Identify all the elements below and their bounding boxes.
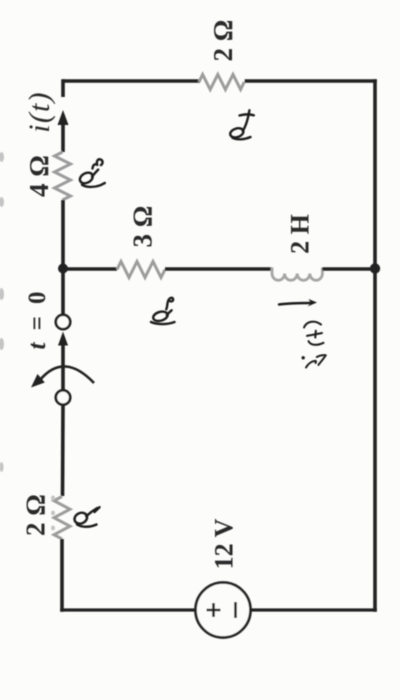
resistor R2 zigzag 3 ohm middle wire [117, 262, 165, 278]
wire bottom left: corner to source [60, 608, 196, 611]
switch blade arrowhead [58, 332, 68, 346]
wire top right segment [245, 79, 377, 83]
handwritten R1 designator [73, 507, 100, 527]
svg-text:2 H: 2 H [286, 214, 315, 254]
wire middle: inductor to node B [322, 267, 375, 271]
resistor R3 zigzag 4 ohm left wire [55, 152, 71, 200]
switch lower terminal circle [56, 390, 70, 404]
switch upper terminal circle [56, 315, 70, 329]
voltage source V1 circle 12 V [196, 583, 251, 638]
node A junction dot left middle [58, 264, 68, 274]
plus sign inside source [207, 603, 221, 617]
switch motion curved arrow [40, 366, 94, 383]
svg-text:3 Ω: 3 Ω [128, 206, 158, 248]
wire top left segment [63, 79, 200, 83]
handwritten inductor current arrow [279, 303, 311, 305]
svg-text:i(t): i(t) [23, 91, 56, 132]
resistor R4 zigzag 2 ohm top wire [199, 75, 244, 90]
current arrow i(t) [58, 110, 69, 125]
wire left upper: corner down to arrow gap [61, 79, 65, 97]
switch blade shaft [61, 343, 65, 390]
svg-text:12 V: 12 V [210, 518, 239, 569]
wire middle: R2 to inductor [165, 267, 272, 271]
wire middle: node A to R2 [63, 267, 117, 271]
wire left bottom: R1 to corner [60, 539, 64, 612]
handwritten R3 designator [78, 159, 105, 187]
wire right side full [373, 79, 377, 612]
svg-text:4 Ω: 4 Ω [24, 155, 54, 197]
svg-text:t = 0: t = 0 [24, 292, 51, 350]
wire bottom right: source to corner [251, 608, 377, 611]
iL dot [302, 356, 305, 359]
node B junction dot right middle [370, 263, 380, 273]
handwritten R2 designator [151, 298, 175, 324]
scan speck left edge 1 [0, 152, 55, 531]
svg-text:2 Ω: 2 Ω [208, 20, 238, 62]
minus sign inside source [234, 602, 237, 618]
inductor L1 coil 2 H [272, 268, 322, 281]
resistor R1 zigzag 2 ohm left wire [54, 497, 70, 539]
wire left: R3 to switch [61, 200, 65, 315]
handwritten iL(t) label [304, 322, 326, 368]
wire left lower: switch to R1 [61, 405, 65, 497]
handwritten R4 designator [229, 110, 254, 139]
svg-text:2 Ω: 2 Ω [21, 494, 51, 536]
